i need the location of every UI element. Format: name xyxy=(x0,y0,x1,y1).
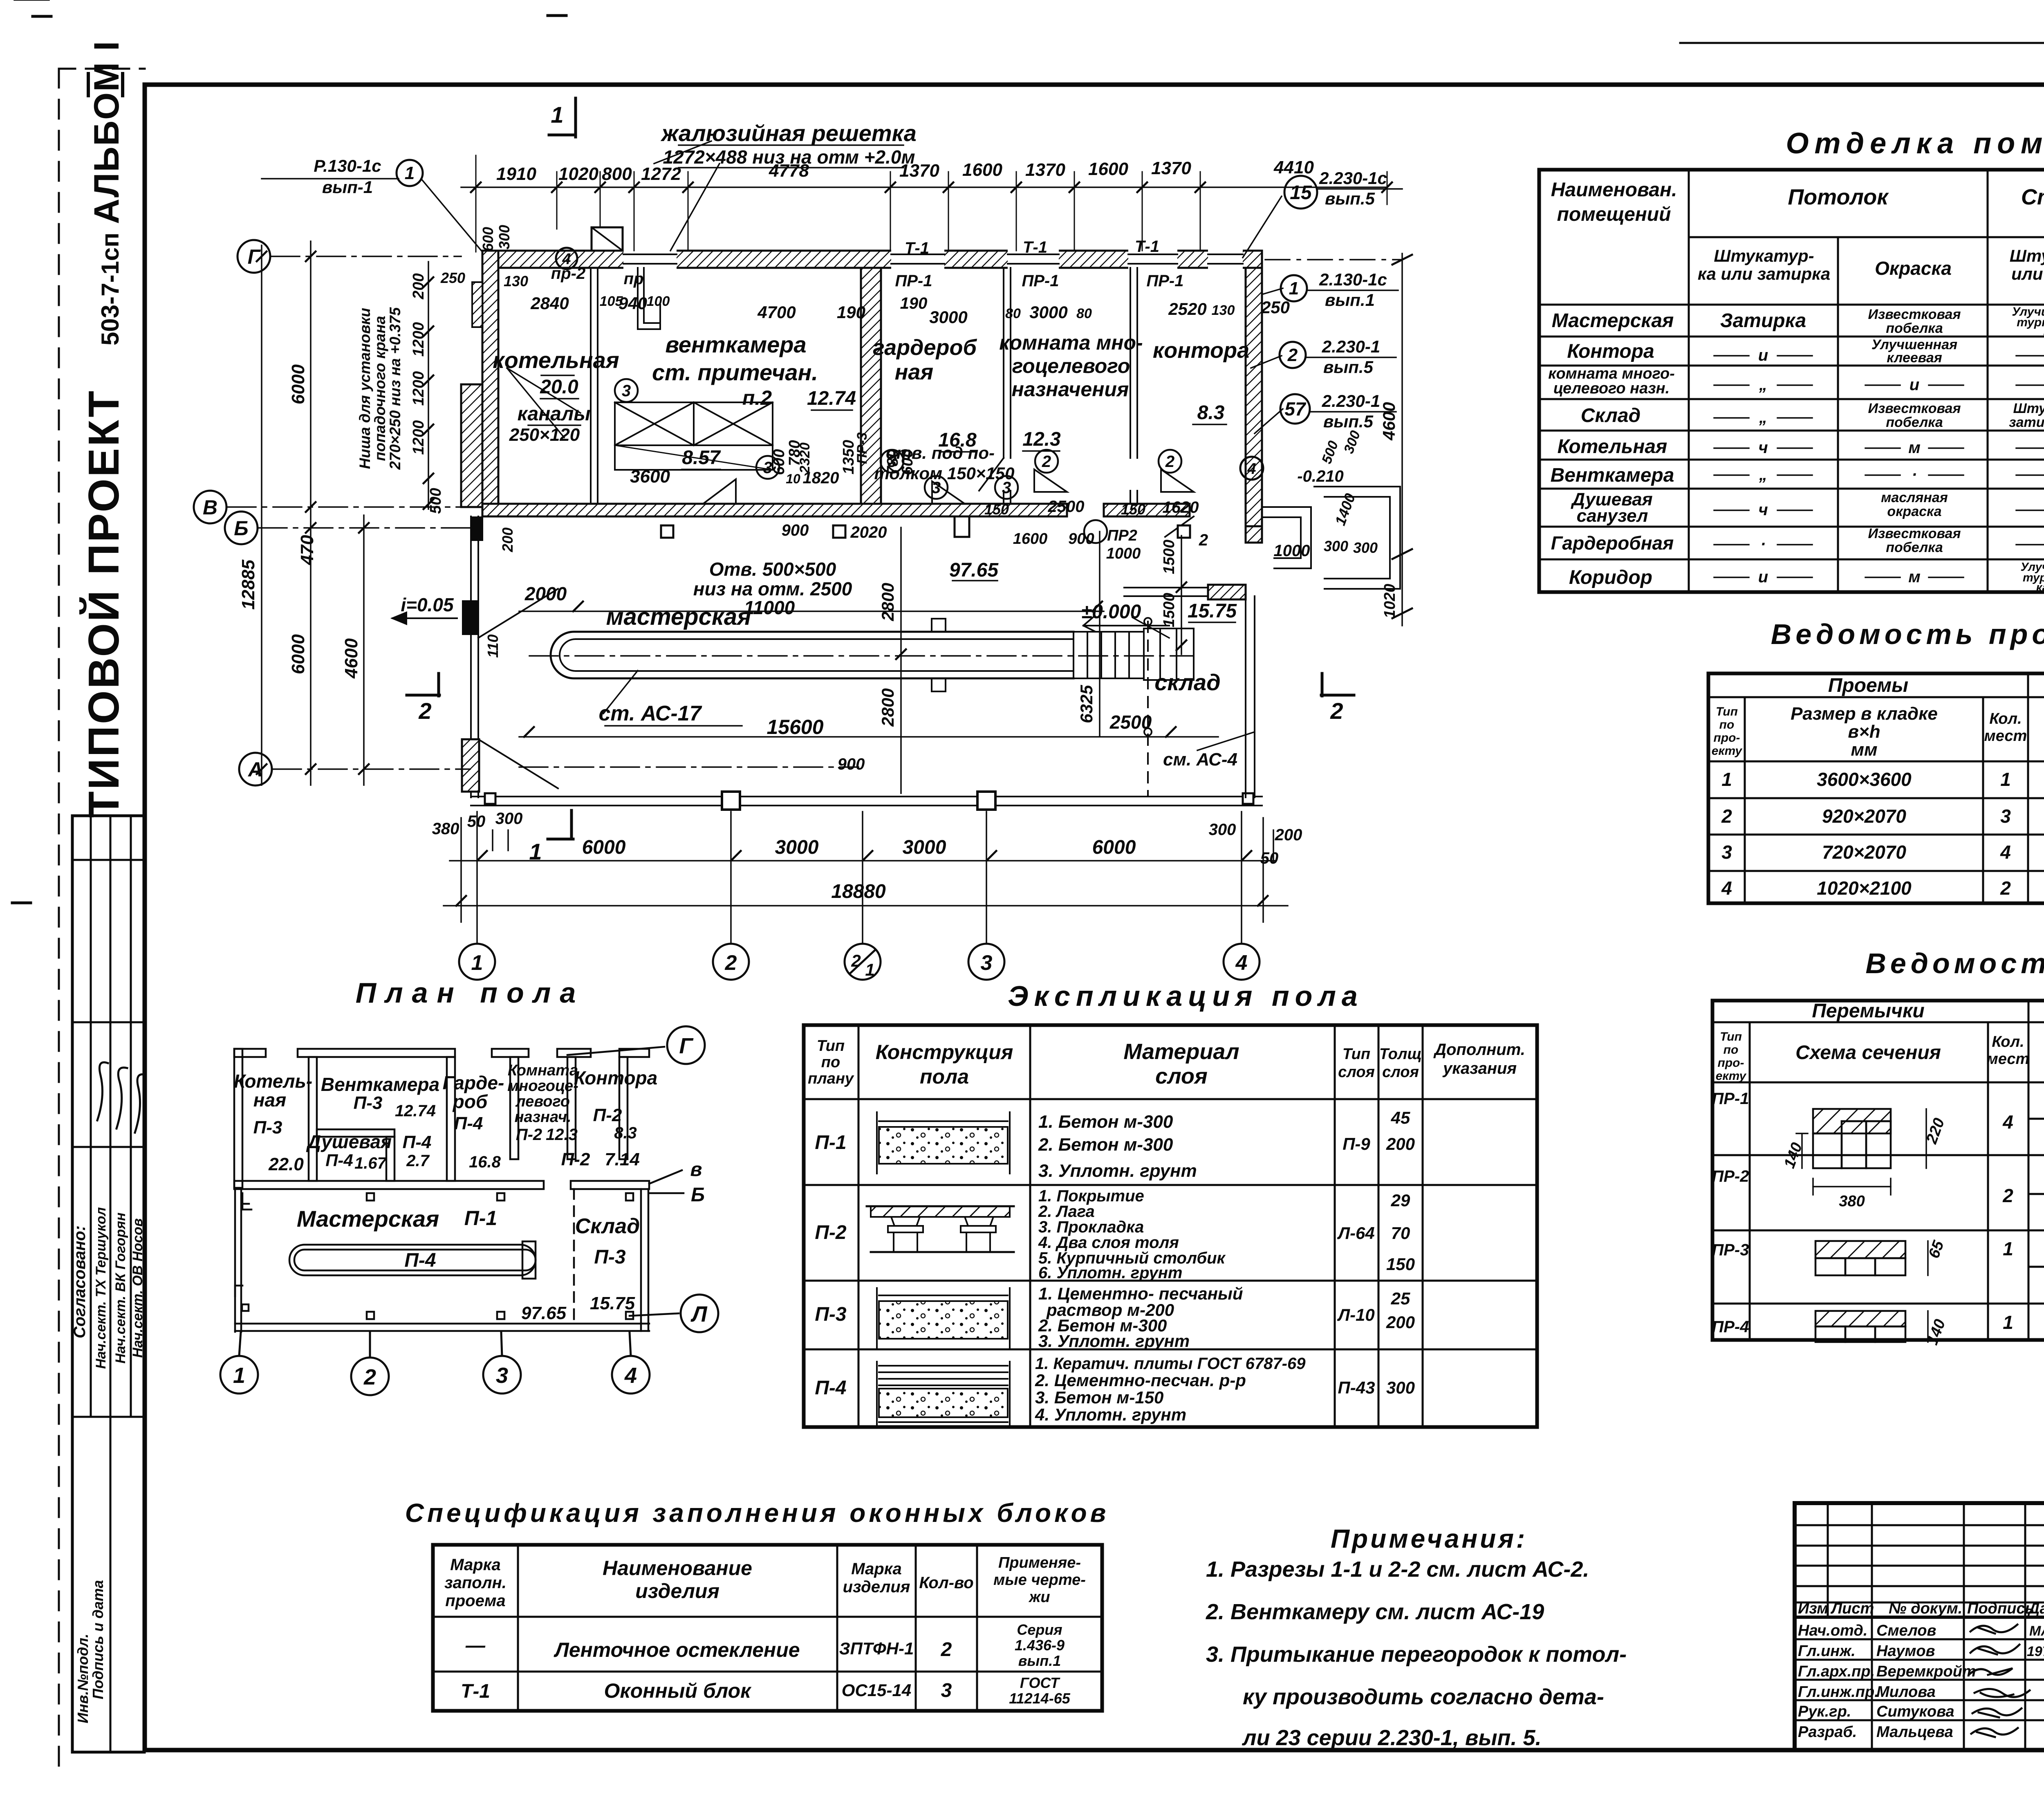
svg-text:Гл.инж.пр.: Гл.инж.пр. xyxy=(1798,1683,1879,1701)
grid circles xyxy=(220,1026,718,1395)
sklad xyxy=(1124,588,1255,797)
top thin band line xyxy=(1680,42,2044,44)
mid small dims xyxy=(782,467,1378,773)
hall left wall xyxy=(471,516,478,797)
interior dim line (11000) xyxy=(519,610,1104,612)
headers xyxy=(1551,175,2044,283)
svg-text:Дата: Дата xyxy=(2027,1600,2044,1617)
pit in workshop xyxy=(519,619,1194,767)
section schemes xyxy=(1796,1109,1928,1342)
svg-text:Лист: Лист xyxy=(1830,1600,1874,1617)
dimension texts top xyxy=(496,157,1314,184)
left strip table xyxy=(72,816,144,1752)
bottom wall of top strip xyxy=(234,1181,544,1189)
svg-text:Смелов: Смелов xyxy=(1876,1622,1936,1639)
material texts xyxy=(1035,1112,1306,1424)
left outer wall xyxy=(234,1049,242,1188)
registration marks xyxy=(33,15,51,18)
svg-text:Мальцева: Мальцева xyxy=(1876,1723,1953,1741)
room labels xyxy=(493,331,1249,487)
top annotation labels xyxy=(314,120,1387,431)
hall bottom wall xyxy=(471,797,1262,806)
small wall squares xyxy=(367,1193,374,1201)
small circled 3/2 inside plan xyxy=(615,379,1181,543)
vent shaft above wall xyxy=(592,227,623,251)
svg-text:Ситукова: Ситукова xyxy=(1876,1703,1954,1720)
svg-text:МАЙ: МАЙ xyxy=(2029,1623,2044,1639)
svg-text:Гл.инж.: Гл.инж. xyxy=(1798,1643,1856,1660)
svg-text:Гл.арх.пр.: Гл.арх.пр. xyxy=(1798,1663,1875,1680)
P-2 xyxy=(871,1206,1010,1217)
svg-text:Рук.гр.: Рук.гр. xyxy=(1798,1703,1851,1720)
ditto marks xyxy=(0,0,2044,577)
PR-3 scheme xyxy=(1815,1241,1905,1258)
right outer wall top section xyxy=(1246,268,1262,526)
pit xyxy=(289,1245,536,1275)
construction sketches xyxy=(867,1112,1014,1425)
6325 vertical xyxy=(1099,532,1100,736)
0.000 mark xyxy=(1083,616,1169,631)
top dimension line xyxy=(461,186,1387,188)
i=0.05 arrow xyxy=(392,613,457,624)
interior dims row xyxy=(440,269,1290,327)
left bottom corner hooks xyxy=(242,1193,251,1210)
hall walls xyxy=(234,1189,236,1332)
columns below strip wall xyxy=(661,525,673,538)
PR-1/PR-2 scheme xyxy=(1813,1109,1891,1133)
vent equipment X boxes xyxy=(615,402,773,470)
wall top (hatched) xyxy=(461,227,1412,810)
entrance tambour right xyxy=(1262,487,1400,589)
svg-text:Подпись: Подпись xyxy=(1967,1600,2034,1617)
svg-text:Милова: Милова xyxy=(1876,1683,1936,1701)
vent room small duct partition xyxy=(638,268,660,329)
section marks xyxy=(407,98,1354,839)
1500/1500 right xyxy=(1181,536,1182,654)
workshop area labels xyxy=(524,559,1237,770)
row circles left xyxy=(194,240,272,785)
vertical album title xyxy=(79,40,128,818)
internal walls xyxy=(309,1057,317,1181)
bottom wall of room strip xyxy=(482,504,1067,516)
left outer wall + niche xyxy=(482,251,498,516)
left dim chains xyxy=(261,245,262,785)
verticals of top dim xyxy=(475,155,477,252)
PR-4 scheme xyxy=(1815,1311,1905,1326)
left dim texts (rotated) xyxy=(238,225,513,679)
grid circles bottom xyxy=(459,944,1260,980)
svg-text:Разраб.: Разраб. xyxy=(1798,1723,1857,1741)
signatures xyxy=(1970,1625,2030,1737)
callout circles top/right xyxy=(397,160,1317,480)
P-4 xyxy=(879,1365,1008,1367)
window gaps in top wall xyxy=(623,249,1243,270)
leader lines xyxy=(262,178,399,180)
window glazing lines xyxy=(623,254,1243,264)
big door opening arcs on left wall (gate) xyxy=(478,589,558,788)
data rows xyxy=(1548,305,2044,594)
doors (triangles) xyxy=(703,458,1194,537)
svg-text:Изм: Изм xyxy=(1798,1600,1828,1617)
niche note rotated xyxy=(356,307,403,470)
dimension texts bottom xyxy=(582,837,1136,902)
interior dim 15600 xyxy=(519,736,1218,738)
niche dim chain xyxy=(428,262,429,509)
columns on bottom wall xyxy=(722,792,740,810)
svg-text:№ докум.: № докум. xyxy=(1889,1600,1962,1617)
vertical interior dim 2800/2800 xyxy=(900,527,902,793)
svg-text:Наумов: Наумов xyxy=(1876,1643,1935,1660)
P-3 xyxy=(879,1295,1008,1296)
interior walls xyxy=(591,268,1137,504)
P-1 xyxy=(879,1120,1008,1122)
leaders to letter circles xyxy=(567,1047,664,1055)
top wall segments xyxy=(234,1049,266,1057)
svg-text:Нач.отд.: Нач.отд. xyxy=(1798,1622,1867,1639)
bottom dim lines xyxy=(450,860,1275,862)
signatures squiggles xyxy=(97,1062,145,1133)
svg-text:1979г: 1979г xyxy=(2027,1644,2044,1659)
svg-text:Веремкройт: Веремкройт xyxy=(1876,1663,1976,1680)
room labels xyxy=(234,1062,657,1323)
window tags xyxy=(551,238,1184,312)
horizontal extension lines to building xyxy=(271,256,461,257)
